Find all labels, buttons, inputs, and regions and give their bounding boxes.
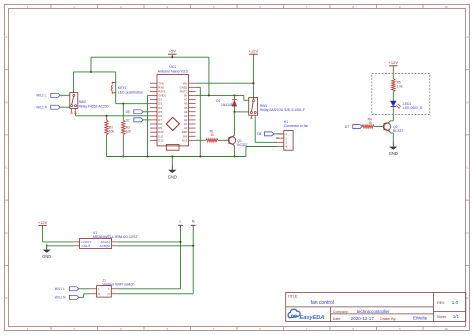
title block	[286, 293, 466, 322]
net label W/L1 N at wifi switch	[55, 295, 79, 299]
svg-text:D7: D7	[345, 125, 349, 129]
svg-text:LED pushbutton: LED pushbutton	[118, 90, 143, 94]
terminal L mains	[178, 220, 183, 231]
svg-text:1N4148: 1N4148	[221, 103, 233, 107]
wire ACL to L	[118, 241, 181, 243]
wire branch to relay RW2 common	[74, 72, 92, 93]
svg-text:N: N	[108, 292, 110, 296]
svg-text:W/L1 L: W/L1 L	[55, 287, 65, 291]
svg-text:B: B	[5, 100, 7, 104]
junction R3 tap on D3 net	[122, 103, 124, 105]
svg-text:W/L1 L: W/L1 L	[36, 94, 46, 98]
junction Q1 emitter at rail	[233, 155, 235, 157]
svg-text:N: N	[192, 220, 195, 224]
wire Q2 emitter to ground	[390, 132, 393, 142]
LED LED1	[390, 101, 422, 110]
power +12V right	[389, 60, 399, 68]
svg-text:EWelte: EWelte	[413, 315, 428, 320]
svg-text:D13: D13	[182, 138, 188, 142]
dashed annotation box	[372, 74, 430, 115]
svg-text:GND: GND	[42, 254, 51, 259]
svg-text:L: L	[180, 220, 182, 224]
svg-text:REV:: REV:	[437, 301, 445, 305]
wire branch to KEY1 top	[91, 71, 116, 73]
junction D1 anode node	[233, 94, 235, 96]
svg-text:W/L1 N: W/L1 N	[36, 106, 47, 110]
wire L to wifi switch output	[118, 288, 180, 290]
junction GND2 at rail	[199, 155, 201, 157]
wire GND1 pin to rail	[148, 95, 151, 156]
wire R3 to ground rail	[122, 135, 124, 157]
wire H1 pin 4 to ground rail	[246, 147, 278, 157]
wire 5V pin to D1	[196, 57, 209, 95]
wire W/L1 N flag to switch	[79, 294, 90, 298]
svg-text:W/L1 N: W/L1 N	[55, 296, 66, 300]
wire +5V rail horizontal	[91, 56, 209, 58]
transistor Q2 BC337	[383, 122, 403, 133]
svg-text:LED-0603_B: LED-0603_B	[403, 106, 423, 110]
net label D7 to UC1	[126, 118, 144, 122]
junction R3 at ground rail	[122, 155, 124, 157]
net label D8 to fan connector	[257, 132, 274, 136]
svg-text:+12V: +12V	[38, 220, 48, 225]
wire LED1 to Q2 collector	[392, 106, 394, 121]
relay RW2	[70, 93, 109, 114]
resistor R4	[362, 117, 374, 128]
svg-text:GND: GND	[389, 151, 398, 156]
net label W/L1 L at wifi switch	[55, 287, 79, 291]
svg-text:ACN(N): ACN(N)	[100, 244, 111, 248]
svg-text:10: 10	[445, 327, 449, 331]
svg-text:techniccontroller: techniccontroller	[357, 309, 390, 314]
svg-text:Drawn By:: Drawn By:	[380, 317, 396, 321]
EasyEDA logo	[288, 309, 324, 321]
svg-text:D12: D12	[158, 138, 164, 142]
diode D1 1N4148	[216, 95, 236, 112]
svg-text:E: E	[466, 296, 468, 300]
svg-text:+5V: +5V	[169, 49, 177, 54]
wire +12V to +VOUT	[43, 228, 74, 242]
junction +5V stem	[171, 56, 173, 58]
svg-text:B: B	[466, 100, 468, 104]
svg-text:Relay F4052-AC230: Relay F4052-AC230	[79, 104, 109, 108]
wire N vertical	[192, 231, 194, 294]
wire D8 to H1 pin 1	[274, 133, 284, 135]
wire R4 to Q2 base	[374, 126, 384, 128]
wire D5 flag to pin	[143, 111, 150, 113]
junction GND1 at rail	[146, 155, 148, 157]
svg-text:10: 10	[445, 5, 449, 9]
svg-text:E: E	[5, 296, 7, 300]
junction 5V node	[208, 94, 210, 96]
svg-text:A: A	[466, 35, 468, 39]
svg-text:D1: D1	[216, 99, 220, 103]
power supply U1 MEANWELL IRM-60-12ST	[73, 231, 138, 249]
wire D7 flag to R4	[361, 126, 363, 128]
net label D7 to Q2 base	[345, 125, 362, 129]
wire +5V rail left drop	[90, 57, 92, 72]
wire N to wifi switch output	[118, 293, 193, 295]
svg-text:10k: 10k	[126, 130, 132, 134]
wire W/L1 L to RW2	[60, 94, 70, 96]
ground symbol center	[168, 157, 177, 180]
svg-text:+12V: +12V	[249, 49, 259, 54]
resistor R2	[105, 116, 115, 135]
svg-text:KEY1: KEY1	[118, 86, 127, 90]
wire ground rail	[107, 156, 246, 158]
junction D1 cathode node	[233, 111, 235, 113]
svg-text:Arduino Nano V3.3: Arduino Nano V3.3	[158, 70, 188, 74]
resistor R5	[392, 79, 403, 92]
svg-text:1.0k: 1.0k	[397, 85, 403, 89]
svg-text:EasyEDA: EasyEDA	[300, 315, 325, 321]
svg-text:Relay SANYOU SJE-S-105L-F: Relay SANYOU SJE-S-105L-F	[260, 108, 305, 112]
svg-text:BC337: BC337	[393, 129, 403, 133]
wire ACN to N	[118, 245, 193, 247]
svg-text:D5: D5	[126, 110, 130, 114]
wire Q1 emitter to ground rail	[233, 146, 235, 157]
svg-text:1.0: 1.0	[452, 300, 459, 305]
svg-text:Connector to fan: Connector to fan	[284, 124, 309, 128]
svg-text:UC1: UC1	[169, 65, 176, 69]
svg-text:Sheet:: Sheet:	[437, 315, 447, 319]
frame row ticks and letters	[5, 35, 470, 300]
junction N node	[192, 245, 194, 247]
wire Q1 collector to D1	[233, 112, 235, 135]
wire VIN to +12V	[196, 82, 254, 84]
IC UC1 Arduino Nano V3.3	[150, 65, 196, 150]
net label W/L1 N at relay RW2	[36, 105, 60, 109]
svg-text:1k: 1k	[210, 133, 214, 137]
resistor R1	[196, 129, 218, 142]
svg-text:1/1: 1/1	[453, 314, 460, 319]
pushbutton KEY1	[111, 82, 143, 95]
junction at KEY1 branch	[90, 71, 92, 73]
svg-text:2020-12-17: 2020-12-17	[351, 316, 375, 321]
wire D1 to RW1 coil bottom	[234, 111, 248, 113]
wire -VOUT to ground	[47, 244, 73, 245]
wire +12V to R5	[392, 69, 394, 79]
wire RW1 contact to fan connector	[255, 117, 277, 142]
svg-text:1k: 1k	[368, 121, 372, 125]
svg-text:TITLE:: TITLE:	[288, 294, 299, 298]
resistor R3	[122, 104, 132, 135]
wire +12V down to relay RW1	[252, 57, 254, 95]
wire R1 to Q1 base	[218, 139, 229, 141]
svg-text:-VOUT: -VOUT	[81, 244, 91, 248]
svg-text:+12V: +12V	[389, 60, 399, 65]
power +12V top	[249, 49, 259, 57]
junction L node	[179, 241, 181, 243]
power +12V at PSU	[38, 220, 48, 228]
wire D7 flag to pin	[143, 119, 150, 121]
wifi switch J1 Vistron	[90, 278, 135, 297]
wire L vertical	[180, 231, 182, 289]
svg-text:10k: 10k	[109, 130, 115, 134]
wire R5 to LED1	[392, 92, 394, 101]
junction ground stem	[171, 155, 173, 157]
wire Q2 collector jog	[390, 120, 393, 123]
wire R2 to ground rail	[106, 135, 108, 157]
wire W/L1 L flag to switch	[79, 288, 90, 290]
svg-text:D7: D7	[126, 118, 130, 122]
wire KEY1 bottom to net D3	[116, 72, 150, 104]
svg-text:N: N	[98, 292, 100, 296]
junction R2 tap on D6 net	[105, 115, 107, 117]
ground symbol PSU	[46, 244, 48, 249]
ground symbol right	[392, 141, 394, 146]
net label D5 to UC1	[126, 110, 144, 114]
wire RW2 contact to net D6	[76, 113, 151, 116]
terminal N mains	[191, 220, 196, 231]
wire +5V to coil of RW1	[209, 95, 249, 100]
relay RW1	[249, 95, 305, 118]
transistor Q1 BC337	[228, 135, 247, 146]
svg-text:GND: GND	[168, 174, 177, 179]
power +5V	[168, 49, 177, 58]
svg-text:Date:: Date:	[333, 317, 341, 321]
svg-text:D8: D8	[257, 132, 261, 136]
svg-text:A: A	[5, 35, 7, 39]
svg-text:Company:: Company:	[333, 310, 349, 314]
net label W/L1 L at relay RW2	[36, 93, 60, 97]
svg-text:fan control: fan control	[311, 300, 334, 306]
junction VIN tap	[252, 82, 254, 84]
wire GND2 pin to rail	[196, 87, 201, 156]
wire W/L1 N to RW2	[60, 106, 70, 108]
connector H1 to fan	[276, 120, 309, 150]
